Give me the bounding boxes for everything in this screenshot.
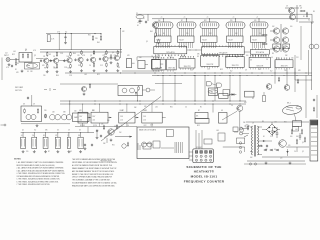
ground	[265, 162, 267, 163]
svg-text:.01: .01	[173, 69, 175, 71]
IC U12 counter	[179, 59, 195, 69]
svg-text:C4: C4	[185, 107, 187, 109]
svg-text:68: 68	[137, 25, 139, 27]
svg-text:100: 100	[74, 111, 77, 113]
svg-text:R31: R31	[88, 35, 91, 37]
svg-text:IC2: IC2	[308, 20, 310, 22]
wire	[145, 64, 148, 66]
wire	[143, 89, 147, 91]
svg-text:SS: SS	[196, 116, 198, 118]
wire to supply	[223, 146, 245, 148]
wire divider drop	[126, 123, 128, 127]
ground	[289, 162, 291, 163]
resistor R24	[24, 108, 26, 109]
wire out low	[262, 156, 309, 158]
svg-text:220: 220	[230, 20, 233, 22]
transistor Q16	[237, 105, 243, 111]
svg-text:.005: .005	[13, 51, 16, 53]
IC U44 small	[273, 44, 281, 49]
relay K1	[142, 142, 147, 147]
pin 6	[200, 155, 202, 157]
svg-text:10K: 10K	[78, 135, 81, 137]
IC U14 counter	[226, 57, 244, 68]
svg-text:D3: D3	[83, 125, 85, 127]
svg-text:220: 220	[280, 158, 283, 160]
svg-text:C12: C12	[209, 33, 212, 35]
display DS5 7-segment	[250, 22, 268, 29]
svg-text:68: 68	[143, 18, 145, 20]
capacitor C1	[14, 59, 16, 61]
svg-text:47K: 47K	[16, 72, 19, 74]
svg-text:74L47: 74L47	[228, 39, 233, 41]
display DS2 7-segment	[177, 22, 196, 29]
resistor R13	[93, 62, 95, 63]
svg-text:R22: R22	[97, 74, 100, 76]
FET Q1 shield	[25, 63, 40, 70]
wire lower bus B	[152, 74, 312, 76]
svg-text:D3: D3	[145, 110, 147, 112]
pin 10	[200, 159, 202, 161]
resistor R17	[117, 62, 119, 63]
IC U22 flip-flop	[151, 60, 160, 69]
svg-text:Q5: Q5	[302, 142, 304, 144]
resistor R42	[155, 32, 157, 33]
svg-text:33K: 33K	[285, 55, 288, 57]
diode D15	[264, 149, 267, 151]
svg-text:4.7K: 4.7K	[82, 55, 85, 57]
wire pins U2	[179, 42, 181, 48]
IC U4 decoder-driver	[227, 36, 244, 42]
svg-text:IC2: IC2	[230, 71, 233, 73]
wire vertical	[162, 75, 164, 101]
wire	[286, 68, 288, 85]
svg-text:10K: 10K	[68, 68, 71, 70]
wire vertical	[194, 75, 196, 101]
svg-text:68: 68	[163, 33, 165, 35]
svg-text:68: 68	[118, 67, 120, 69]
diode D9	[263, 140, 266, 142]
wire vertical	[174, 75, 176, 101]
svg-text:R44: R44	[97, 42, 100, 44]
trimmer capacitor C23	[139, 19, 141, 21]
capacitor C32	[100, 135, 102, 136]
wire feed digit 3	[209, 19, 211, 22]
svg-text:220: 220	[44, 110, 47, 112]
svg-text:.005: .005	[274, 122, 277, 124]
wire	[311, 22, 313, 90]
gate G4	[217, 83, 222, 87]
svg-text:100: 100	[96, 130, 99, 132]
box terminal	[153, 141, 160, 148]
IC U20 flip-flop	[126, 59, 131, 68]
svg-text:Q2: Q2	[53, 67, 55, 69]
connector line 6	[311, 150, 317, 152]
box regulator IC	[293, 127, 299, 132]
svg-text:R7: R7	[25, 50, 27, 52]
crystal Y1	[136, 15, 144, 19]
wire right vertical	[305, 75, 307, 118]
svg-text:NE-1: NE-1	[287, 103, 291, 105]
wire pins DS3	[202, 29, 204, 37]
box filter FL1	[47, 35, 50, 42]
component marks	[137, 143, 139, 150]
wire	[155, 28, 157, 32]
wire	[294, 68, 296, 92]
svg-text:R9: R9	[272, 53, 274, 55]
svg-text:68: 68	[221, 110, 223, 112]
display DS4 7-segment	[226, 22, 245, 29]
gate G1	[50, 115, 55, 120]
wire driver feeds	[270, 30, 273, 32]
svg-text:R9: R9	[114, 55, 116, 57]
wire	[294, 55, 296, 80]
svg-text:68: 68	[49, 54, 51, 56]
transistor Q20 oscillator	[152, 22, 158, 28]
svg-text:C4: C4	[89, 65, 91, 67]
svg-text:2.2K: 2.2K	[190, 70, 193, 72]
component marks left	[44, 89, 47, 91]
svg-text:R31: R31	[43, 135, 46, 137]
svg-text:R44: R44	[150, 31, 153, 33]
box U33	[195, 118, 209, 123]
input jack J1	[6, 58, 10, 62]
svg-text:4.7K: 4.7K	[6, 67, 9, 69]
IC U16 counter	[275, 60, 293, 68]
wire	[296, 147, 298, 152]
svg-text:+5: +5	[256, 17, 258, 19]
wire	[137, 90, 139, 101]
svg-text:C9: C9	[266, 59, 268, 61]
wire diagonal	[222, 111, 237, 120]
svg-text:C12: C12	[296, 57, 299, 59]
svg-text:R7: R7	[48, 151, 50, 153]
capacitor C	[50, 59, 52, 60]
svg-text:R7: R7	[55, 135, 57, 137]
wire	[69, 101, 71, 114]
svg-text:15K: 15K	[119, 132, 122, 134]
transistor Q18	[122, 144, 126, 148]
wire latch gap	[187, 49, 202, 51]
transistor Q5 digit driver	[273, 46, 279, 52]
wire pins U4	[228, 42, 230, 48]
wire divider feed	[99, 104, 101, 112]
lamp NE1 pilot	[282, 104, 302, 115]
wire vertical	[204, 75, 206, 101]
resistor R61	[296, 139, 298, 140]
resistor R2	[22, 53, 24, 54]
svg-text:33K: 33K	[197, 54, 200, 56]
svg-text:D3: D3	[57, 130, 59, 132]
display DS3 7-segment	[200, 22, 219, 29]
fuse F1	[245, 125, 249, 127]
svg-text:x10: x10	[120, 120, 123, 122]
svg-text:R44: R44	[56, 75, 59, 77]
svg-text:100: 100	[67, 56, 70, 58]
transistor Q11 amp	[114, 55, 119, 60]
wire feedback bottom	[122, 70, 160, 72]
svg-text:33K: 33K	[45, 130, 48, 132]
svg-text:15K: 15K	[52, 112, 55, 114]
svg-text:100: 100	[290, 26, 293, 28]
wire out mid	[286, 146, 309, 148]
wire junction	[101, 33, 102, 34]
svg-text:C9: C9	[286, 6, 288, 8]
wire supply rail	[246, 121, 309, 123]
svg-text:.005: .005	[216, 130, 219, 132]
pin 4	[209, 151, 212, 154]
box main board outline	[137, 127, 189, 159]
svg-text:INPUT: INPUT	[4, 55, 9, 57]
svg-text:4.7K: 4.7K	[57, 32, 60, 34]
svg-text:68: 68	[263, 136, 265, 138]
wire arrow	[110, 117, 112, 119]
svg-text:R9: R9	[44, 68, 46, 70]
svg-text:C9: C9	[68, 130, 70, 132]
wire	[21, 123, 70, 125]
box U35	[233, 127, 238, 132]
svg-text:R9: R9	[78, 55, 80, 57]
transistor Q23	[309, 44, 314, 49]
transistor Q1 digit driver	[273, 28, 279, 34]
svg-text:68: 68	[23, 104, 25, 106]
wire pins U5	[252, 42, 254, 48]
svg-text:33K: 33K	[139, 57, 142, 59]
ground	[36, 124, 38, 125]
svg-text:HEATHKIT®: HEATHKIT®	[194, 170, 215, 174]
pin 8	[210, 155, 212, 157]
wire feed digit 1	[163, 19, 165, 22]
svg-text:IC2: IC2	[92, 110, 95, 112]
svg-text:R31: R31	[112, 145, 115, 147]
wire divider drop	[151, 123, 153, 127]
svg-text:74L47: 74L47	[156, 39, 161, 41]
wire	[108, 57, 114, 59]
resistor network RN1	[21, 137, 26, 148]
AC plug	[240, 127, 243, 130]
wire	[162, 117, 166, 119]
wire	[108, 117, 112, 119]
svg-text:+5: +5	[207, 17, 209, 19]
wire control bus A	[60, 100, 246, 102]
svg-text:220: 220	[95, 38, 98, 40]
svg-text:2.2K: 2.2K	[60, 53, 63, 55]
cable hatch	[174, 142, 176, 153]
wire vertical	[214, 75, 216, 101]
resistor R8	[70, 52, 72, 53]
box small3	[143, 144, 151, 150]
svg-text:47K: 47K	[42, 65, 45, 67]
svg-text:C12: C12	[158, 35, 161, 37]
wire	[250, 126, 253, 128]
wire	[160, 63, 163, 65]
svg-text:15K: 15K	[158, 20, 161, 22]
svg-text:100: 100	[107, 120, 110, 122]
svg-text:Y1: Y1	[136, 13, 138, 15]
svg-text:R1: R1	[15, 69, 17, 71]
svg-text:10K: 10K	[250, 157, 253, 159]
svg-text:Q2: Q2	[112, 52, 114, 54]
svg-text:R7: R7	[198, 110, 200, 112]
box small2	[218, 133, 225, 141]
ground	[21, 70, 23, 71]
pin 7	[205, 155, 207, 157]
ground	[117, 69, 119, 70]
wire feedback top	[137, 56, 160, 58]
svg-text:C12: C12	[276, 58, 279, 60]
svg-text:33K: 33K	[104, 54, 107, 56]
svg-text:15K: 15K	[258, 69, 261, 71]
transistor Q10 amp	[103, 56, 108, 61]
svg-text:IC2: IC2	[65, 32, 67, 34]
edge connector	[310, 120, 318, 161]
capacitor C	[40, 59, 42, 60]
wire right vertical 2	[316, 95, 318, 118]
svg-text:33K: 33K	[63, 112, 66, 114]
wire	[274, 61, 276, 84]
svg-text:Q2: Q2	[236, 57, 238, 59]
capacitor C52	[299, 133, 301, 136]
wire pins DS1	[156, 29, 158, 37]
svg-text:10K: 10K	[296, 136, 299, 138]
junction dots control bus	[68, 100, 71, 103]
capacitor C10	[99, 58, 101, 59]
wire pins DS2	[179, 29, 181, 37]
resistor R60	[291, 129, 293, 130]
ground	[8, 63, 10, 64]
svg-text:33K: 33K	[299, 6, 302, 8]
svg-text:1K: 1K	[204, 56, 206, 58]
svg-text:2.2K: 2.2K	[64, 67, 67, 69]
pin 2	[200, 151, 203, 154]
svg-text:C9: C9	[67, 135, 69, 137]
transistor Q6 digit driver	[282, 46, 288, 52]
IC U1 decoder-driver	[155, 36, 172, 42]
wire	[195, 130, 197, 149]
svg-text:Q2: Q2	[34, 55, 36, 57]
wire lamp	[295, 114, 297, 121]
svg-text:100: 100	[290, 136, 293, 138]
ground bus	[247, 160, 305, 162]
svg-text:R22: R22	[12, 54, 15, 56]
svg-text:R31: R31	[284, 122, 287, 124]
IC U42 latch	[250, 50, 269, 55]
svg-text:+5: +5	[184, 17, 186, 19]
wire display data bus	[152, 18, 310, 20]
choke L1	[258, 145, 259, 147]
svg-text:7490 CTR: 7490 CTR	[232, 65, 240, 67]
wire	[60, 83, 118, 85]
transistor Q17	[108, 129, 114, 135]
IC U13 counter	[201, 56, 219, 67]
svg-text:Q2: Q2	[70, 151, 72, 153]
IC U41 latch	[202, 47, 245, 55]
IC U11 counter	[167, 59, 177, 70]
switch S2	[244, 135, 248, 137]
svg-text:15K: 15K	[30, 71, 33, 73]
connector P1 socket	[193, 149, 214, 163]
svg-text:C9: C9	[259, 33, 261, 35]
wire gate link	[212, 84, 217, 86]
diode D17	[276, 149, 279, 151]
svg-text:R7: R7	[181, 20, 183, 22]
wire pins DS4	[228, 29, 230, 37]
resistor R51	[262, 43, 263, 45]
capacitor C	[63, 59, 65, 60]
svg-text:Q2: Q2	[90, 55, 92, 57]
transformer T1 primary	[251, 126, 252, 155]
wire	[239, 111, 241, 128]
svg-text:+5: +5	[233, 17, 235, 19]
transistor Q21	[266, 84, 272, 90]
resistor network RN6	[78, 137, 83, 148]
svg-text:7490 CTR: 7490 CTR	[184, 66, 192, 68]
connector line 1	[311, 127, 317, 129]
resistor R40	[92, 35, 94, 36]
capacitor C21	[65, 34, 67, 37]
capacitor C40	[84, 144, 86, 145]
wire	[88, 117, 92, 119]
svg-text:R44: R44	[157, 57, 160, 59]
ground	[80, 150, 82, 151]
transistor Q11	[82, 87, 87, 92]
wire below ground bus	[244, 163, 306, 165]
svg-text:47K: 47K	[213, 56, 216, 58]
connector line 2	[311, 132, 317, 134]
pin 9	[195, 159, 197, 161]
svg-text:C9: C9	[231, 105, 233, 107]
svg-text:C4: C4	[95, 125, 97, 127]
box U30	[219, 94, 228, 99]
svg-text:2.2K: 2.2K	[270, 136, 273, 138]
svg-text:C4: C4	[294, 151, 296, 153]
diode D5	[229, 94, 236, 96]
svg-text:47K: 47K	[127, 55, 130, 57]
capacitor C54	[313, 99, 315, 100]
transistor Q14	[26, 115, 31, 120]
wire divider feed	[151, 104, 153, 112]
svg-text:.005: .005	[295, 129, 298, 131]
ground	[45, 150, 47, 151]
svg-text:C9: C9	[53, 56, 55, 58]
wire	[155, 83, 182, 85]
display DS1 7-segment	[154, 22, 173, 29]
wire divider drop	[99, 123, 101, 127]
box small	[204, 139, 212, 144]
svg-text:R1: R1	[43, 56, 45, 58]
svg-text:.01: .01	[21, 135, 23, 137]
component trimmer	[223, 90, 230, 96]
ground	[93, 69, 95, 70]
svg-text:D3: D3	[79, 130, 81, 132]
resistor R29	[116, 124, 118, 125]
svg-text:1K: 1K	[151, 56, 153, 58]
svg-text:470: 470	[254, 20, 257, 22]
gate G3	[207, 82, 212, 86]
wire	[135, 117, 139, 119]
svg-text:x10: x10	[143, 120, 146, 122]
wire	[262, 140, 272, 142]
resistor R4	[46, 52, 48, 53]
svg-text:220: 220	[284, 70, 287, 72]
resistor R9	[70, 64, 72, 65]
svg-text:R9: R9	[93, 53, 95, 55]
transistor Q12	[122, 88, 127, 93]
svg-text:R9: R9	[313, 11, 315, 13]
wire	[258, 126, 263, 128]
wire bias bus	[46, 33, 101, 35]
crystal Y2	[45, 113, 47, 116]
wire right verticals extra	[300, 26, 302, 60]
